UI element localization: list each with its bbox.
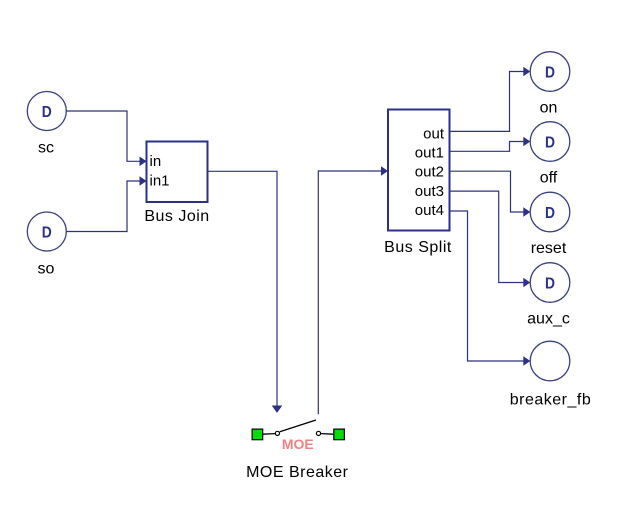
- right terminal green square: [334, 429, 345, 440]
- left lead wire: [263, 433, 275, 436]
- output off (circle with D): [530, 122, 570, 162]
- wire Bus Split out3 to aux_c: [450, 191, 531, 287]
- output on (circle with D): [530, 52, 570, 92]
- svg-text:D: D: [42, 224, 52, 241]
- left terminal green square: [252, 429, 263, 440]
- svg-text:aux_c: aux_c: [527, 311, 570, 328]
- input so (circle with D): [27, 212, 66, 251]
- svg-text:D: D: [545, 205, 555, 222]
- svg-text:in1: in1: [150, 173, 170, 190]
- wire Bus Split out4 to breaker_fb: [450, 211, 531, 366]
- svg-text:reset: reset: [531, 240, 567, 257]
- svg-text:out: out: [423, 126, 445, 143]
- svg-text:D: D: [545, 64, 555, 81]
- svg-text:in: in: [150, 153, 162, 170]
- output aux_c (circle with D): [530, 263, 570, 303]
- svg-text:out3: out3: [415, 183, 444, 200]
- block Bus Join U1: [147, 142, 208, 203]
- wire Bus Split out to on: [450, 67, 531, 132]
- right lead wire: [321, 433, 333, 436]
- left contact circle: [275, 431, 279, 435]
- MOE Breaker switch: [252, 420, 344, 452]
- svg-text:D: D: [545, 275, 555, 292]
- wire so to Bus Join in1: [66, 176, 146, 231]
- svg-text:Bus Split: Bus Split: [384, 239, 452, 256]
- input sc (circle with D): [27, 92, 66, 131]
- svg-text:MOE Breaker: MOE Breaker: [246, 464, 349, 481]
- svg-text:on: on: [540, 100, 558, 117]
- svg-text:out4: out4: [415, 202, 444, 219]
- block Bus Split U2: [388, 110, 450, 231]
- right contact circle: [316, 431, 320, 435]
- switch blade: [280, 420, 316, 432]
- wire MOE Breaker to Bus Split input: [318, 166, 388, 414]
- svg-text:breaker_fb: breaker_fb: [510, 392, 592, 409]
- svg-text:sc: sc: [38, 140, 54, 157]
- wire Bus Split out2 to reset: [450, 171, 531, 217]
- wire Bus Split out1 to off: [450, 137, 531, 152]
- wire Bus Join out to MOE Breaker (down arrow): [208, 171, 283, 413]
- svg-text:out2: out2: [415, 164, 444, 181]
- svg-text:MOE: MOE: [282, 436, 314, 452]
- wire sc to Bus Join in: [66, 111, 146, 166]
- svg-text:so: so: [38, 261, 55, 278]
- svg-text:D: D: [42, 104, 52, 121]
- output reset (circle with D): [530, 192, 570, 232]
- svg-text:out1: out1: [415, 145, 444, 162]
- svg-text:off: off: [540, 170, 558, 187]
- svg-text:Bus Join: Bus Join: [144, 208, 209, 225]
- svg-text:D: D: [545, 134, 555, 151]
- output breaker_fb (empty circle): [530, 341, 570, 381]
